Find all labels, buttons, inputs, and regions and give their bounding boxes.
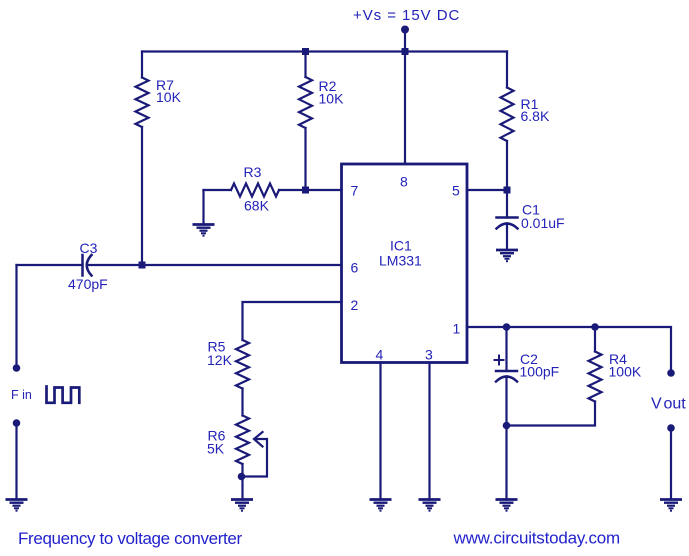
svg-text:IC1: IC1	[390, 238, 412, 254]
resistor R2	[299, 77, 312, 128]
capacitor C1	[497, 218, 518, 229]
svg-text:C3: C3	[80, 240, 98, 256]
svg-text:100pF: 100pF	[520, 364, 560, 380]
wire	[241, 389, 243, 416]
wire pin8	[404, 52, 406, 165]
svg-text:LM331: LM331	[379, 253, 422, 269]
node C2 junctions	[503, 323, 511, 331]
svg-text:10K: 10K	[319, 91, 345, 107]
wire R6 wiper	[242, 439, 268, 477]
svg-text:0.01uF: 0.01uF	[521, 215, 565, 231]
C2 plus sign	[495, 356, 504, 365]
svg-text:8: 8	[400, 174, 408, 190]
svg-text:+Vs = 15V DC: +Vs = 15V DC	[353, 7, 460, 24]
potentiometer R6	[236, 416, 249, 465]
node R4 junction	[591, 323, 599, 331]
ground R3	[193, 225, 215, 236]
resistor R1	[501, 88, 514, 142]
node Vout top	[667, 369, 675, 377]
ground pin3	[419, 500, 441, 511]
wire	[141, 127, 143, 265]
wire	[506, 224, 508, 251]
ground C1	[496, 250, 518, 261]
ground pin4	[370, 500, 392, 511]
wire	[15, 423, 17, 500]
svg-text:Frequency to voltage converter: Frequency to voltage converter	[18, 529, 243, 548]
ground Vout	[660, 500, 682, 511]
wire pin5	[467, 189, 507, 191]
svg-text:10K: 10K	[156, 89, 182, 105]
svg-text:www.circuitstoday.com: www.circuitstoday.com	[453, 529, 621, 548]
svg-text:5: 5	[452, 183, 460, 199]
svg-text:F in: F in	[11, 388, 32, 402]
ground R6	[231, 500, 253, 511]
wire pin2	[243, 302, 342, 340]
wire pin4	[379, 363, 381, 500]
wire	[141, 52, 143, 78]
wire top supply rail	[142, 50, 507, 52]
node +Vs terminal	[401, 26, 409, 34]
wire	[279, 189, 306, 191]
wire pin7	[306, 189, 342, 191]
svg-text:1: 1	[453, 321, 461, 337]
node Vout bottom	[667, 424, 675, 432]
wire pin1	[467, 327, 671, 373]
wire	[506, 52, 508, 88]
capacitor C3	[83, 255, 92, 276]
svg-text:6.8K: 6.8K	[521, 108, 550, 124]
wire	[202, 190, 204, 225]
svg-text:6: 6	[351, 260, 359, 276]
wire	[506, 141, 508, 218]
svg-text:out: out	[664, 396, 687, 413]
node R6 junction	[238, 473, 246, 481]
svg-text:12K: 12K	[207, 352, 233, 368]
svg-text:3: 3	[425, 347, 433, 363]
svg-text:100K: 100K	[609, 364, 642, 380]
wire	[507, 402, 596, 426]
wire	[204, 189, 232, 191]
wire	[594, 327, 596, 352]
capacitor C2	[496, 371, 517, 382]
ground C2	[496, 500, 518, 511]
wire C3 left lead	[17, 264, 83, 266]
wire	[505, 327, 507, 371]
wire	[304, 52, 306, 78]
svg-text:V: V	[651, 396, 662, 413]
wire pin6	[88, 264, 342, 266]
resistor R4	[589, 352, 602, 402]
resistor R3	[231, 184, 279, 197]
wire	[241, 464, 243, 500]
resistor R5	[236, 340, 249, 389]
svg-text:4: 4	[376, 347, 384, 363]
wire	[404, 30, 406, 52]
ground Fin	[6, 500, 28, 511]
wire	[505, 377, 507, 500]
junction squares	[139, 48, 511, 269]
node Fin top	[13, 364, 21, 372]
node Fin bottom	[13, 419, 21, 427]
svg-text:7: 7	[351, 183, 359, 199]
svg-text:68K: 68K	[244, 198, 270, 214]
svg-text:R3: R3	[244, 164, 262, 180]
svg-text:2: 2	[351, 297, 359, 313]
svg-text:470pF: 470pF	[68, 276, 108, 292]
square wave symbol	[47, 387, 80, 403]
R6 wiper arrowhead	[254, 432, 263, 447]
wire	[670, 428, 672, 500]
IC U1 LM331 box	[342, 164, 468, 363]
svg-text:5K: 5K	[207, 441, 225, 457]
wire Fin input	[15, 265, 17, 368]
resistor R7	[136, 78, 149, 128]
wire	[304, 128, 306, 190]
wire pin3	[428, 363, 430, 500]
